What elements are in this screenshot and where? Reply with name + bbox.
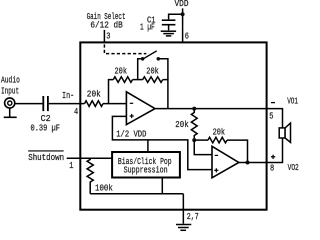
wire VDD to pin 6 [182, 8, 184, 42]
ground (C1) [161, 31, 176, 36]
bias box [112, 152, 180, 178]
ground (jack) [4, 116, 17, 118]
label C1 [147, 15, 156, 25]
svg-text:8: 8 [270, 164, 274, 174]
svg-text:3: 3 [106, 32, 110, 42]
svg-text:1 µF: 1 µF [140, 22, 155, 32]
pin 4 [74, 107, 78, 117]
svg-text:20k: 20k [115, 66, 128, 76]
junction dot U2 output [246, 161, 250, 165]
svg-text:In-: In- [62, 91, 74, 101]
wire R_in to op-amp U1 inverting input [103, 103, 126, 105]
op-amp U1 [126, 92, 155, 125]
label C2 [41, 114, 51, 124]
svg-text:20k: 20k [213, 128, 226, 138]
U2 minus sign [215, 154, 218, 156]
wire bias tap [147, 140, 149, 152]
wire U2 output to pin 8 line [239, 162, 267, 164]
audio input jack J1 [5, 98, 15, 108]
label Audio Input [1, 76, 20, 97]
wire feedback tap up [109, 80, 114, 104]
wire U1 plus input / half VDD rail [112, 116, 212, 169]
plus sign (VO2 polarity) [271, 155, 275, 159]
wire Shutdown to bias box (pin 1) [67, 157, 112, 159]
overline [28, 150, 63, 152]
pin 1 [69, 161, 73, 171]
U2 plus sign [214, 168, 218, 172]
svg-text:VDD: VDD [175, 0, 189, 9]
capacitor C2 [43, 96, 48, 111]
wire between R1 and R2 [133, 79, 143, 81]
wire C1 to ground [168, 26, 170, 31]
svg-text:VO1: VO1 [287, 97, 298, 107]
switch contact dot right [157, 57, 161, 61]
label VO1 [287, 97, 298, 107]
wire node to R5 [194, 139, 208, 141]
wire jack to ground [9, 108, 11, 117]
wire U1 output to pin 5 line [155, 108, 267, 110]
wire internal ground rail [90, 193, 183, 195]
svg-text:Suppression: Suppression [124, 166, 168, 176]
junction dot R4 bottom node [192, 138, 196, 142]
wire ground rail to pin 2,7 [182, 194, 184, 224]
wire bias box to ground rail [161, 178, 163, 194]
wire node to U2 inverting input [194, 140, 212, 155]
op-amp U2 [212, 146, 239, 178]
label 1/2 VDD [116, 130, 146, 140]
wire jack to C2 [15, 103, 43, 105]
resistor R1 20k (feedback) [113, 77, 132, 83]
svg-text:100k: 100k [95, 184, 113, 194]
svg-text:Input: Input [1, 87, 19, 97]
switch contact dot left [141, 57, 145, 61]
label 20k (input resistor) [87, 90, 101, 100]
dashed gain-select control line [104, 44, 146, 53]
resistor R2 20k (feedback) [143, 77, 163, 83]
label 20k (R2) [146, 66, 159, 76]
label 20k (R5) [213, 128, 226, 138]
wire R2 to output node [163, 80, 168, 109]
svg-text:Audio: Audio [1, 76, 20, 86]
pin 2,7 [187, 212, 199, 222]
ground (pins 2,7) [176, 225, 191, 231]
resistor R3 100k [87, 158, 93, 194]
svg-text:20k: 20k [87, 90, 101, 100]
minus sign (VO1 polarity) [271, 102, 275, 104]
svg-text:4: 4 [74, 107, 78, 117]
wire to C1 [169, 14, 183, 19]
svg-text:6: 6 [185, 32, 189, 42]
pin 3 [106, 32, 110, 42]
capacitor C1 [162, 20, 176, 25]
pin 6 [185, 32, 189, 42]
svg-text:0.39 µF: 0.39 µF [31, 123, 60, 133]
wire pin 3 [103, 30, 105, 43]
svg-text:20k: 20k [146, 66, 159, 76]
svg-text:1: 1 [69, 161, 73, 171]
IC boundary box [80, 42, 266, 209]
wire pin 8 to speaker bottom [267, 138, 283, 163]
switch arm SW1 [143, 51, 157, 59]
label 20k (R1) [115, 66, 128, 76]
svg-text:6/12 dB: 6/12 dB [90, 21, 123, 31]
wire R5 to U2 output [227, 140, 248, 162]
wire switch right leg [160, 59, 168, 80]
label VDD [175, 0, 189, 9]
svg-text:2,7: 2,7 [187, 212, 199, 222]
label VO2 [288, 163, 299, 173]
label 6/12 dB [90, 21, 123, 31]
junction dot VDD/C1 [181, 12, 185, 16]
label In- [62, 91, 74, 101]
resistor R_in 20k [85, 101, 103, 107]
label 20k (R4) [175, 120, 188, 130]
svg-text:Shutdown: Shutdown [28, 153, 64, 163]
svg-text:5: 5 [269, 112, 273, 122]
label 100k [95, 184, 113, 194]
resistor R5 20k (feedback U2) [208, 137, 227, 143]
svg-text:20k: 20k [175, 120, 188, 130]
wire switch left leg [138, 59, 141, 80]
U1 minus sign [130, 102, 133, 104]
label 1 uF [140, 22, 155, 32]
resistor R4 20k (vertical) [191, 109, 197, 141]
label Shutdown with overline [28, 153, 64, 163]
svg-text:VO2: VO2 [288, 163, 299, 173]
speaker LS1 [279, 123, 290, 142]
U1 plus sign [130, 114, 134, 118]
wire C2 to pin 4 (In-) [49, 103, 85, 105]
label Gain Select [87, 12, 126, 22]
label 0.39 uF [31, 123, 60, 133]
label Bias/Click Pop [118, 157, 172, 167]
svg-text:1/2 VDD: 1/2 VDD [116, 130, 146, 140]
wire pin 5 to speaker top [267, 109, 283, 128]
label Suppression [124, 166, 168, 176]
pin 5 [269, 112, 273, 122]
junction dot output node [192, 107, 196, 111]
pin 8 [270, 164, 274, 174]
